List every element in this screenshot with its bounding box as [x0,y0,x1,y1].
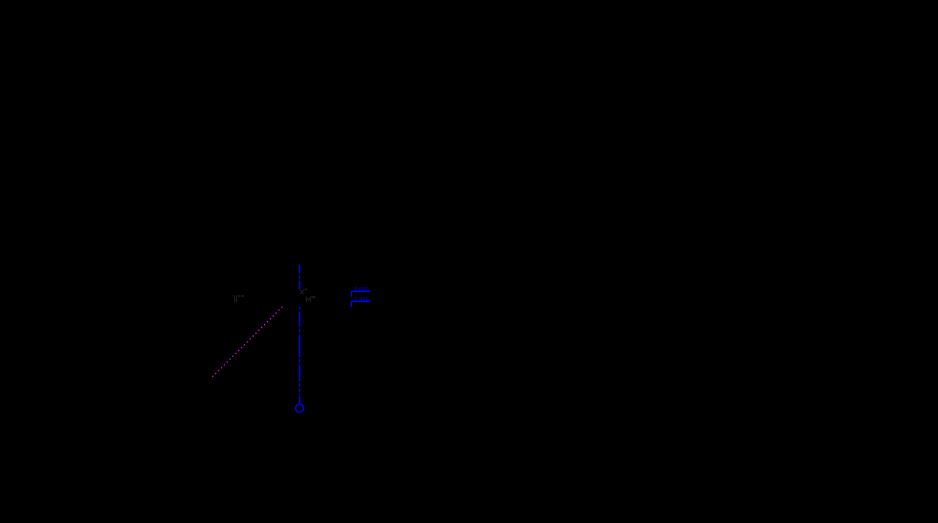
faint dimension text right of axis [306,296,314,302]
svg-text:0.000: 0.000 [354,287,367,293]
level mark -1.450: left tick [350,301,352,307]
level mark -1.450: underline [351,300,370,302]
centerline (vertical blue dashed axis) [299,265,301,395]
level mark 0.000: left tick [350,291,352,297]
svg-text:-1.450: -1.450 [352,297,368,303]
axis bubble edge pixel bump [303,407,304,409]
centerline connector dash into bubble [299,396,301,404]
level mark 0.000: underline [351,290,370,292]
faint dimension text along slope line [232,295,243,302]
faint dimension text near axis (rotated) [300,289,307,295]
slope line (magenta dotted diagonal) [212,307,282,376]
axis bubble (circle at line end) [296,404,304,412]
